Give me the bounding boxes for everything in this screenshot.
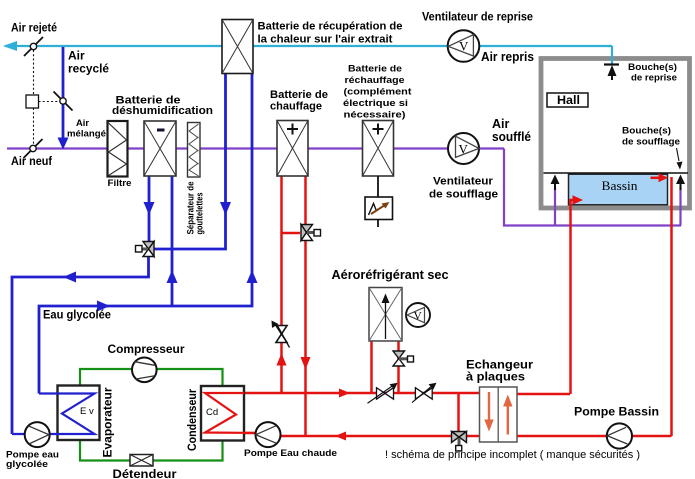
svg-text:la chaleur sur l'air extrait: la chaleur sur l'air extrait: [258, 34, 393, 46]
svg-text:recyclé: recyclé: [68, 62, 109, 76]
svg-text:de reprise: de reprise: [631, 73, 677, 84]
svg-text:Pompe Eau chaude: Pompe Eau chaude: [244, 448, 337, 459]
svg-text:Batterie de récupération de: Batterie de récupération de: [258, 21, 403, 33]
svg-text:chauffage: chauffage: [270, 101, 322, 113]
svg-text:de soufflage: de soufflage: [622, 137, 680, 148]
svg-text:Cd: Cd: [206, 407, 218, 418]
svg-text:électrique si: électrique si: [343, 98, 408, 109]
svg-text:Batterie de: Batterie de: [270, 89, 328, 101]
svg-text:Evaporateur: Evaporateur: [103, 387, 115, 458]
svg-text:Détendeur: Détendeur: [113, 467, 177, 479]
svg-text:réchauffage: réchauffage: [345, 75, 405, 86]
svg-text:mélangé: mélangé: [67, 129, 106, 140]
svg-text:Hall: Hall: [557, 93, 580, 107]
svg-text:Condenseur: Condenseur: [187, 389, 199, 451]
svg-text:Air: Air: [68, 49, 85, 63]
svg-text:Air rejeté: Air rejeté: [11, 21, 57, 35]
svg-text:glycolée: glycolée: [6, 459, 48, 470]
svg-text:Air repris: Air repris: [481, 50, 534, 64]
svg-text:Bouche(s): Bouche(s): [628, 62, 677, 73]
svg-text:de soufflage: de soufflage: [429, 189, 498, 201]
svg-text:! schéma de principe incomplet: ! schéma de principe incomplet ( manque …: [385, 449, 640, 461]
svg-text:déshumidification: déshumidification: [112, 105, 213, 117]
svg-text:Air: Air: [76, 118, 89, 129]
svg-text:E v: E v: [80, 406, 94, 417]
svg-text:soufflé: soufflé: [492, 130, 531, 144]
svg-text:nécessaire): nécessaire): [344, 110, 406, 121]
svg-text:(complément: (complément: [344, 87, 413, 98]
svg-text:Eau glycolée: Eau glycolée: [43, 310, 111, 322]
svg-text:Filtre: Filtre: [108, 178, 132, 189]
svg-text:Ventilateur de reprise: Ventilateur de reprise: [422, 10, 533, 24]
svg-text:Batterie de: Batterie de: [348, 64, 402, 75]
svg-text:V: V: [459, 39, 469, 54]
svg-text:à plaques: à plaques: [466, 370, 525, 384]
svg-text:Air neuf: Air neuf: [11, 154, 53, 168]
svg-text:Bouche(s): Bouche(s): [622, 126, 671, 137]
svg-text:V: V: [414, 311, 423, 323]
svg-text:Air: Air: [492, 117, 510, 131]
svg-text:Bassin: Bassin: [602, 178, 639, 193]
svg-text:Ventilateur: Ventilateur: [433, 176, 494, 188]
svg-text:gouttelettes: gouttelettes: [195, 193, 205, 235]
svg-text:Pompe Bassin: Pompe Bassin: [574, 405, 659, 419]
svg-text:Compresseur: Compresseur: [108, 344, 186, 356]
svg-text:Aéroréfrigérant sec: Aéroréfrigérant sec: [332, 268, 449, 282]
svg-text:V: V: [459, 142, 469, 157]
